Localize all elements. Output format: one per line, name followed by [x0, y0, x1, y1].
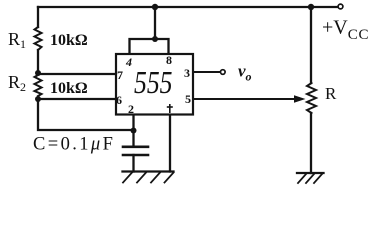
wire 555 pin 1 stub to ground — [169, 114, 171, 172]
node C junction pin2/capacitor — [131, 128, 137, 134]
wire bracket joining pin 4 and pin 8 — [130, 39, 169, 54]
svg-text:C=0.1μF: C=0.1μF — [33, 135, 115, 155]
ground right hatch 3 — [314, 174, 322, 183]
svg-text:3: 3 — [184, 66, 190, 80]
svg-text:7: 7 — [117, 68, 123, 82]
wire left column top (rail to R1) — [37, 7, 39, 27]
pin number 1 dagger — [167, 104, 173, 113]
node D junction rail / 555 supply drop — [152, 4, 158, 10]
wire top +Vcc rail — [38, 6, 338, 8]
node E junction on bracket — [152, 36, 158, 42]
terminal +Vcc open circle — [338, 4, 343, 9]
op 555 IC body U1 — [116, 54, 193, 115]
svg-text:R1: R1 — [8, 29, 26, 51]
svg-text:5: 5 — [185, 92, 191, 106]
svg-text:10kΩ: 10kΩ — [50, 80, 88, 97]
wire potentiometer bottom to ground — [310, 113, 312, 173]
svg-text:10kΩ: 10kΩ — [50, 32, 88, 49]
svg-text:+VCC: +VCC — [322, 17, 369, 44]
wire R1 bottom to node A — [37, 50, 39, 73]
node B junction R2/pin6/pin2 branch — [35, 96, 41, 102]
potentiometer R zigzag — [307, 83, 316, 113]
capacitor C1 bottom plate — [123, 154, 148, 157]
ground center hatch 4 — [165, 173, 174, 183]
svg-text:6: 6 — [116, 93, 122, 107]
wire node B to 555 pin 6 — [38, 98, 116, 100]
svg-text:4: 4 — [125, 55, 132, 69]
ground center bar — [123, 170, 174, 172]
ground center hatch 1 — [123, 173, 132, 183]
node F junction rail / R branch — [308, 4, 314, 10]
wire node B down and right to trigger node — [38, 99, 134, 130]
ground right bar — [297, 172, 324, 174]
svg-text:555: 555 — [134, 64, 173, 100]
terminal vo open circle — [221, 70, 226, 75]
wire capacitor bottom to ground — [132, 155, 134, 172]
resistor R1 10k zigzag — [35, 27, 42, 50]
svg-text:R2: R2 — [8, 72, 26, 94]
wire node A to 555 pin 7 — [38, 73, 116, 75]
wire rail to pins 4-8 bracket — [154, 7, 156, 39]
wire 555 pin 3 to output terminal — [193, 71, 220, 73]
svg-text:2: 2 — [128, 102, 134, 116]
wire 555 pin 2 stub — [132, 114, 134, 131]
node A junction R1/R2/pin7 — [35, 70, 41, 76]
potentiometer wiper arrowhead — [294, 95, 306, 103]
ground center hatch 3 — [151, 173, 160, 183]
svg-text:R: R — [325, 84, 337, 103]
svg-text:8: 8 — [166, 53, 172, 67]
wire rail down to potentiometer R — [310, 7, 312, 83]
resistor R2 10k zigzag — [35, 73, 42, 96]
ground right hatch 2 — [306, 174, 314, 183]
ground center hatch 2 — [137, 173, 146, 183]
ground right hatch 1 — [298, 174, 306, 183]
capacitor C1 top plate — [123, 146, 148, 149]
wire node C to capacitor top — [132, 131, 134, 147]
svg-text:vo: vo — [238, 62, 252, 84]
wire 555 pin 5 to potentiometer wiper — [193, 98, 297, 100]
